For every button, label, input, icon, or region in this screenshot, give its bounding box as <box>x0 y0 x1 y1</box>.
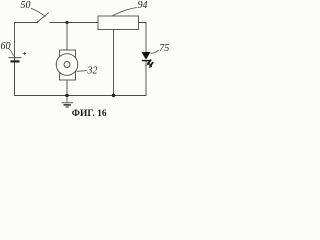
box U 94 <box>98 16 139 30</box>
motor M 32 rotor circle <box>56 54 78 76</box>
wire box 94 bottom to bottom rail <box>113 30 115 96</box>
leader 94 <box>112 8 137 17</box>
motor M 32 shaft circle <box>64 62 70 68</box>
wire top-left rail from battery to switch <box>15 23 38 58</box>
LED D 75 light arrow 1 <box>146 60 151 66</box>
LED D 75 triangle <box>142 52 151 60</box>
node junction dot top (to motor 32) <box>65 21 68 24</box>
wire bottom rail <box>15 57 147 96</box>
svg-text:60: 60 <box>1 41 11 52</box>
wire motor 32 bottom lead <box>66 80 68 94</box>
node junction dot bottom middle (box 94) <box>112 94 115 97</box>
battery B 60 <box>9 58 22 96</box>
wire LED cathode down to bottom rail <box>145 61 147 96</box>
wire junction to motor 32 <box>66 23 68 51</box>
switch S 50 blade <box>38 13 49 22</box>
leader 75 <box>151 50 159 53</box>
svg-text:32: 32 <box>87 66 98 77</box>
svg-text:50: 50 <box>21 0 31 11</box>
motor M 32 housing <box>60 50 76 80</box>
leader 60 <box>9 49 14 56</box>
svg-text:75: 75 <box>159 43 169 54</box>
svg-text:ФИГ. 16: ФИГ. 16 <box>72 109 107 119</box>
battery plus mark <box>23 52 26 55</box>
LED D 75 light arrow 2 <box>148 62 153 68</box>
leader 32 <box>77 70 88 73</box>
wire top rail from switch to box 94 <box>50 22 98 24</box>
node junction dot bottom left (motor/ground) <box>65 94 68 97</box>
leader 50 <box>31 8 46 16</box>
svg-text:94: 94 <box>138 0 148 11</box>
LED D 75 cathode bar <box>142 60 150 62</box>
wire box 94 right to LED 75 branch <box>139 23 147 53</box>
ground symbol <box>62 103 74 107</box>
ground stub <box>66 96 68 103</box>
